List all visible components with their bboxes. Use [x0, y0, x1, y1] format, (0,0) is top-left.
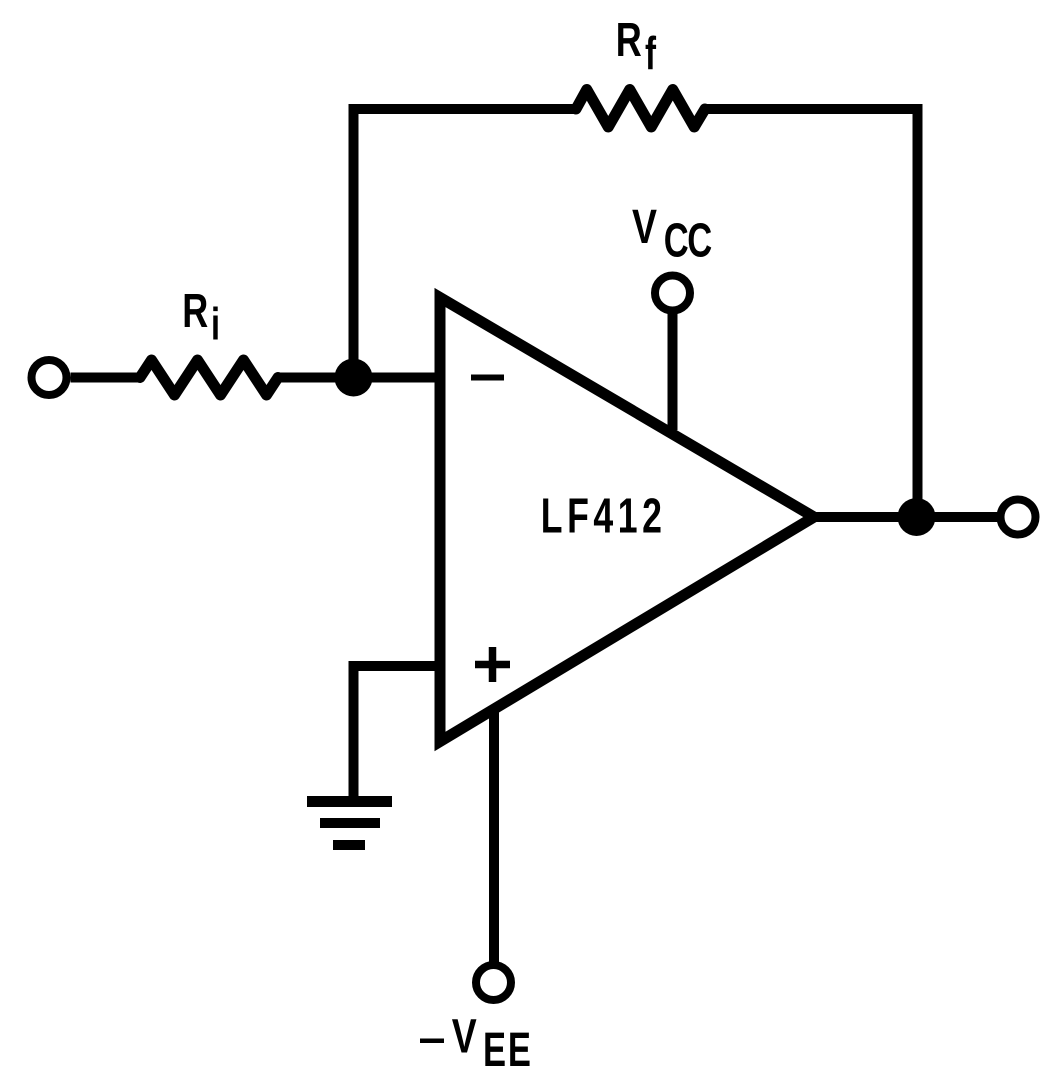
- output terminal (open circle): [1001, 500, 1036, 535]
- ground: [307, 802, 392, 846]
- resistor Ri: [140, 360, 278, 395]
- wire: U1 output to output terminal: [810, 512, 1000, 522]
- svg-text:V: V: [452, 1010, 477, 1064]
- op-amp U1 inverting input marker (minus): [471, 375, 504, 381]
- wire: input terminal to Ri: [71, 373, 143, 383]
- svg-text:R: R: [616, 13, 642, 66]
- op-amp U1 non-inverting input marker (plus): [475, 647, 510, 682]
- input terminal (open circle): [32, 360, 67, 395]
- wire: junction up to Rf (feedback left): [354, 109, 578, 382]
- label LF412: [541, 489, 667, 544]
- svg-text:V: V: [632, 201, 657, 255]
- op-amp U1 (LF412 triangle): [440, 298, 814, 742]
- wire: U1 V- pin to -VEE terminal: [489, 708, 499, 965]
- label Rf: [616, 13, 657, 79]
- svg-text:EE: EE: [483, 1022, 533, 1076]
- resistor Rf: [576, 90, 705, 128]
- wire: Ri to inverting input of U1: [276, 373, 445, 383]
- node: output junction (dot): [898, 498, 936, 536]
- label -VEE: [420, 1010, 533, 1076]
- terminal VCC (open circle): [655, 276, 690, 311]
- svg-text:f: f: [645, 29, 657, 79]
- svg-text:CC: CC: [664, 213, 712, 267]
- wire: Rf to output node (feedback right): [704, 109, 918, 517]
- wire: non-inverting input to ground: [354, 666, 446, 799]
- terminal -VEE (open circle): [476, 965, 511, 1000]
- svg-text:LF412: LF412: [541, 489, 667, 544]
- node: inverting input junction (dot): [335, 359, 373, 397]
- label Ri: [182, 284, 220, 350]
- svg-text:R: R: [182, 284, 208, 337]
- wire: VCC terminal to U1 V+ pin: [668, 311, 678, 431]
- label VCC: [632, 201, 712, 267]
- svg-text:i: i: [211, 300, 220, 349]
